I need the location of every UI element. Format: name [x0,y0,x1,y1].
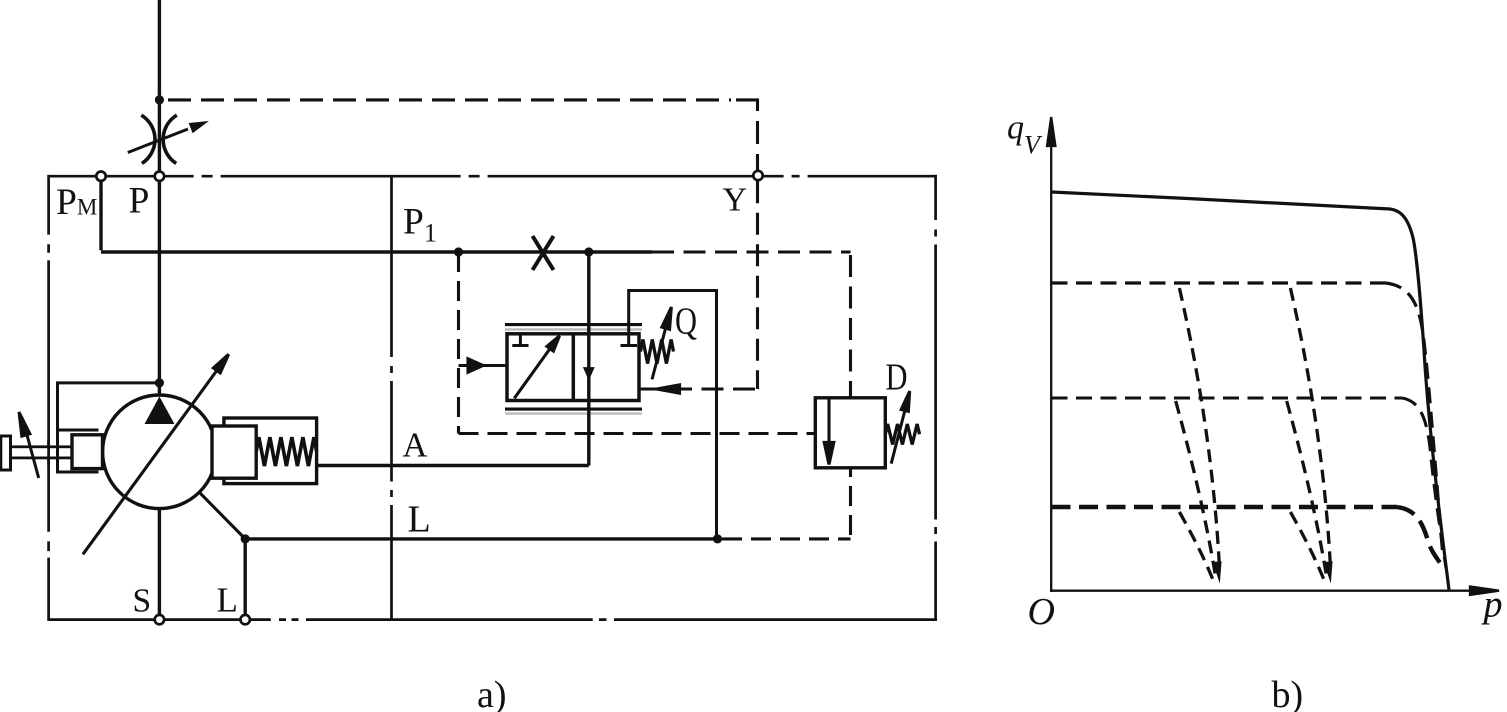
port Y (open circle) [753,171,762,180]
variable throttle adjust arrow [128,123,204,153]
valve D spring adjust arrow [891,391,910,464]
enclosure boundary left edge (dash-dot) [47,175,50,621]
pilot line: P1 junction down (dashed, vertical) [457,252,460,434]
wire: pump case drain (diagonal) [199,492,245,539]
svg-text:p: p [1481,584,1503,626]
wire: P1 line (horizontal) [101,250,652,253]
pilot line: Y to valve spring side (dashed) [680,181,758,389]
valve D body [815,398,885,468]
pilot line: P1 to valve D top (dashed) [652,252,851,398]
valve V1 right position: drain port symbol [621,344,638,347]
svg-text:qV: qV [1007,110,1043,160]
pump U1: flow direction triangle [145,397,175,425]
pump spring housing [224,418,317,484]
pump spring piston [212,426,256,478]
svg-text:L: L [408,499,431,541]
stroke control piston [72,435,103,469]
stroke adjuster T-handle [1,436,11,470]
junction: P line / stroke cylinder tap [155,378,164,387]
enclosure partition line (dash-dot, vertical) [390,176,393,619]
enclosure boundary over rod (dash segment) [47,440,50,465]
valve V1 continuous-positioning line (top) [505,325,642,330]
svg-text:Y: Y [723,182,748,219]
valve D flow path arrow (down) [824,398,834,465]
graph dashed curve 1 (upper) [1052,283,1444,556]
svg-text:P: P [129,181,150,222]
valve D spring (zigzag) [885,424,919,445]
stroke adjuster rod [8,447,72,458]
pilot line: P to Y (dashed, top) [164,100,758,171]
wire: pump suction line to port S [158,509,161,620]
valve V1 drain frame to line L [629,291,717,539]
valve V1 spring adjust arrow Q [652,307,671,379]
svg-text:A: A [403,427,428,465]
manual adjust arrow (left actuator) [19,412,39,478]
valve V1 spring (zigzag) [641,340,674,364]
port S (open circle) [155,615,164,624]
pilot arrow into valve V1 spring side [641,385,680,393]
graph axis q_V (vertical with arrow) [1047,117,1055,592]
junction: P1 line / left pilot branch [454,247,463,256]
graph axis p (horizontal with arrow) [1050,587,1499,595]
graph dashed curve 3 (lower, heavy) [1052,507,1441,564]
valve V1 left position: blocked port symbol [512,334,528,345]
variable throttle (orifice arcs on P line) [141,115,177,163]
valve V1 right position: flow path down arrow [583,367,595,381]
wire: pump pressure line P (vertical) [158,0,161,396]
plugged connection X on P1 line [533,236,554,270]
junction: drain line at pump [241,534,250,543]
junction: P line / Y pilot tap [155,95,164,104]
wire: drain line L (horizontal) [245,537,717,540]
valve V1 body (two position) [507,334,639,401]
pump U1: variable displacement arrow [83,354,229,554]
port L (open circle) [241,615,250,624]
graph trajectory arrow 2 [1324,561,1333,583]
valve V1 left position: throttled path arrow [514,336,559,399]
valve V1 right position: flow path line [587,252,590,466]
pilot line: bottom run to valve D (dashed, horizontal) [459,432,816,435]
svg-text:Q: Q [675,301,697,343]
svg-text:b): b) [1272,674,1304,712]
junction: drain line / valve D return [713,534,722,543]
pilot line with arrow into valve V1 left side [459,359,506,372]
graph solid curve (full displacement characteristic) [1052,192,1450,590]
wire: line A to pump spring chamber [317,464,589,467]
svg-text:S: S [133,583,152,620]
svg-text:D: D [886,357,908,399]
svg-text:O: O [1028,591,1055,633]
port P_M (open circle) [96,172,105,181]
graph trajectory group 1 (dashed droop curves) [1176,288,1220,581]
wire: pilot from P line to stroke cylinder [58,383,160,430]
pump U1: variable displacement pump body (circle) [103,395,217,509]
wire: port P_M drop to P1 line [99,181,102,250]
enclosure boundary right edge (dash-dot) [934,175,937,621]
graph dashed curve 2 (middle) [1052,398,1447,568]
svg-text:PM: PM [56,182,97,223]
svg-text:P1: P1 [403,202,437,248]
pilot line: L to valve D bottom (dashed) [722,468,851,539]
wire: drain drop to port L [243,539,246,620]
enclosure boundary top edge (dash-dot) [49,175,937,178]
graph trajectory arrow 1 [1213,561,1222,583]
port P (open circle) [155,172,164,181]
graph trajectory group 2 (dashed droop curves) [1287,288,1331,581]
junction: P1 line / valve V1 branch [584,247,593,256]
pump bias spring (zigzag) [256,437,316,466]
valve V1 continuous-positioning line (bottom) [505,409,642,414]
stroke control cylinder (open box) [58,430,99,472]
svg-text:L: L [217,581,238,620]
svg-text:a): a) [477,674,507,712]
enclosure boundary bottom edge (dash-dot) [49,618,937,621]
